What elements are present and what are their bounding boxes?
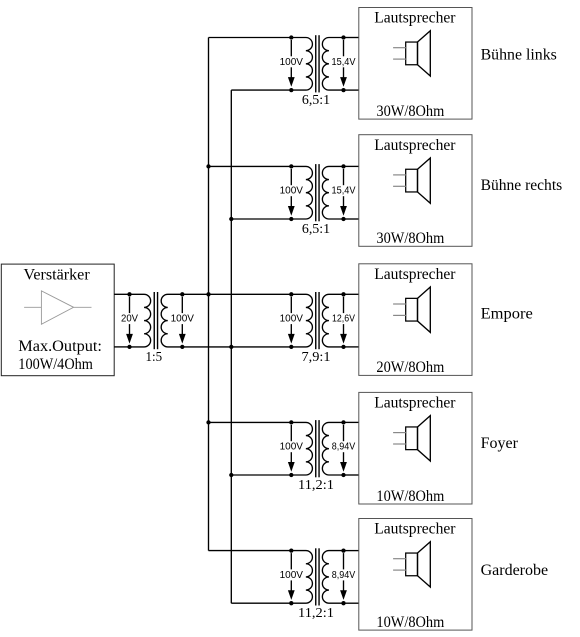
svg-text:Lautsprecher: Lautsprecher: [374, 137, 456, 154]
node TR2 primary bottom: [289, 88, 293, 92]
wire TR5 secondary top to speaker LS4: [344, 421, 359, 423]
junction 100V bus to TR5 top wire: [206, 420, 210, 424]
junction return bus to TR3 bottom wire: [229, 217, 233, 221]
value label 8,94V TR5 secondary: [331, 441, 357, 453]
wire TR5 secondary bottom to speaker LS4: [344, 474, 359, 476]
speaker LS1 box Bühne links: [359, 8, 472, 120]
value label 15,4V TR2 secondary: [331, 56, 357, 68]
node TR1 secondary bottom: [180, 345, 184, 349]
value label ratio 11,2:1: [298, 606, 334, 621]
wire TR2 secondary top to speaker LS1: [344, 37, 359, 39]
transformer TR2 core: [316, 35, 319, 92]
node TR3 secondary top: [341, 164, 345, 168]
node TR6 secondary top: [341, 548, 345, 552]
node TR4 secondary bottom: [341, 345, 345, 349]
voltage arrow TR1 primary: [126, 297, 133, 344]
voltage arrow TR3 primary: [288, 169, 295, 216]
svg-text:30W/8Ohm: 30W/8Ohm: [376, 103, 444, 120]
svg-text:12,6V: 12,6V: [332, 314, 355, 325]
wire 0V return bus vertical net: [230, 90, 232, 603]
svg-text:Lautsprecher: Lautsprecher: [374, 395, 456, 412]
svg-text:6,5:1: 6,5:1: [302, 93, 330, 108]
value label 100V TR5 primary: [279, 441, 304, 453]
label Empore: [481, 305, 533, 322]
speaker icon LS5: [393, 542, 430, 587]
svg-text:Max.Output:: Max.Output:: [18, 338, 102, 355]
label Garderobe: [481, 562, 548, 579]
node TR1 secondary top: [180, 292, 184, 296]
transformer TR5 secondary winding: [322, 422, 343, 475]
wire TR4 secondary bottom to speaker LS3: [344, 346, 359, 348]
junction 100V bus to TR3 top wire: [206, 164, 210, 168]
svg-text:100V: 100V: [280, 186, 304, 197]
svg-text:Foyer: Foyer: [481, 435, 519, 452]
svg-text:11,2:1: 11,2:1: [298, 478, 334, 493]
svg-text:100V: 100V: [171, 314, 195, 325]
svg-text:Bühne rechts: Bühne rechts: [481, 177, 563, 194]
transformer TR2 secondary winding: [322, 38, 343, 91]
node TR2 secondary top: [341, 35, 345, 39]
svg-text:15,4V: 15,4V: [332, 57, 356, 68]
voltage arrow TR3 secondary: [340, 169, 347, 216]
transformer TR4 core: [316, 292, 319, 349]
svg-text:100V: 100V: [280, 57, 304, 68]
svg-text:11,2:1: 11,2:1: [298, 606, 334, 621]
amplifier U1 Verstaerker box: [1, 264, 114, 376]
wire TR6 secondary bottom to speaker LS5: [344, 602, 359, 604]
value label ratio 6,5:1: [302, 222, 330, 237]
node TR4 primary bottom: [289, 345, 293, 349]
node TR1 primary bottom: [127, 345, 131, 349]
op-amp amplifier triangle symbol: [24, 291, 91, 324]
svg-text:Lautsprecher: Lautsprecher: [374, 521, 456, 538]
svg-text:10W/8Ohm: 10W/8Ohm: [376, 614, 444, 631]
node TR5 secondary top: [341, 420, 345, 424]
svg-text:Lautsprecher: Lautsprecher: [374, 266, 456, 283]
wire TR3 secondary bottom to speaker LS2: [344, 218, 359, 220]
node TR3 primary bottom: [289, 217, 293, 221]
node TR1 primary top: [127, 292, 131, 296]
value label 12,6V TR4 secondary: [331, 313, 356, 325]
speaker icon LS3: [393, 287, 430, 332]
svg-text:8,94V: 8,94V: [332, 442, 356, 453]
node TR5 primary bottom: [289, 473, 293, 477]
svg-text:100V: 100V: [280, 442, 304, 453]
node TR3 secondary bottom: [341, 217, 345, 221]
transformer TR3 6,5:1 primary winding: [291, 166, 312, 219]
wire TR2 secondary bottom to speaker LS1: [344, 89, 359, 91]
wire 100V bus to TR3 primary top: [209, 165, 292, 167]
value label ratio 11,2:1: [298, 478, 334, 493]
junction return bus to TR4 bottom wire: [229, 345, 233, 349]
value label 15,4V TR3 secondary: [331, 185, 357, 197]
node TR6 secondary bottom: [341, 601, 345, 605]
svg-text:10W/8Ohm: 10W/8Ohm: [376, 488, 444, 505]
wire return bus to TR5 primary bottom: [231, 474, 291, 476]
transformer TR6 core: [316, 548, 319, 605]
node TR3 primary top: [289, 164, 293, 168]
wire return bus to TR2 primary bottom: [231, 89, 291, 91]
label Bühne rechts: [481, 177, 563, 194]
svg-text:Empore: Empore: [481, 305, 533, 322]
speaker LS2 box Bühne rechts: [359, 135, 472, 247]
node TR5 primary top: [289, 420, 293, 424]
transformer TR3 core: [316, 164, 319, 221]
svg-text:20V: 20V: [121, 314, 138, 325]
wire TR3 secondary top to speaker LS2: [344, 165, 359, 167]
svg-text:15,4V: 15,4V: [332, 186, 356, 197]
svg-text:Garderobe: Garderobe: [481, 562, 548, 579]
transformer TR5 11,2:1 primary winding: [291, 422, 312, 475]
node TR2 secondary bottom: [341, 88, 345, 92]
value label 100V TR6 primary: [279, 569, 304, 581]
voltage arrow TR6 secondary: [340, 553, 347, 600]
node TR6 primary bottom: [289, 601, 293, 605]
node TR5 secondary bottom: [341, 473, 345, 477]
wire TR1 secondary bottom to return bus and TR4: [182, 346, 291, 348]
wire TR4 secondary top to speaker LS3: [344, 293, 359, 295]
speaker icon LS4: [393, 416, 430, 461]
value label 100V TR1 secondary: [170, 313, 195, 325]
value label 100V TR4 primary: [279, 313, 304, 325]
transformer TR3 secondary winding: [322, 166, 343, 219]
wire amp output - to TR1 primary bottom: [114, 346, 129, 348]
transformer TR6 11,2:1 primary winding: [291, 551, 312, 604]
svg-text:30W/8Ohm: 30W/8Ohm: [376, 230, 444, 247]
wire amp output + to TR1 primary top: [114, 293, 129, 295]
speaker LS4 box Foyer: [359, 392, 472, 504]
transformer TR1 secondary winding: [161, 294, 182, 347]
transformer TR5 core: [316, 420, 319, 477]
node TR4 primary top: [289, 292, 293, 296]
svg-text:100V: 100V: [280, 314, 304, 325]
speaker LS3 box Empore: [359, 264, 472, 376]
voltage arrow TR4 secondary: [340, 297, 347, 344]
junction 100V bus to TR4 top wire: [206, 292, 210, 296]
wire 100V bus vertical net: [208, 38, 210, 551]
label Bühne links: [481, 47, 557, 64]
voltage arrow TR2 primary: [288, 40, 295, 87]
speaker icon LS1: [393, 31, 430, 76]
transformer TR4 7,9:1 primary winding: [291, 294, 312, 347]
value label 100V TR3 primary: [279, 185, 304, 197]
svg-text:7,9:1: 7,9:1: [302, 350, 331, 365]
label Foyer: [481, 435, 519, 452]
voltage arrow TR6 primary: [288, 553, 295, 600]
transformer TR1 core: [154, 292, 157, 349]
value label ratio 6,5:1: [302, 93, 330, 108]
value label ratio 7,9:1: [302, 350, 331, 365]
svg-text:100W/4Ohm: 100W/4Ohm: [18, 356, 93, 373]
voltage arrow TR2 secondary: [340, 40, 347, 87]
transformer TR6 secondary winding: [322, 551, 343, 604]
wire 100V bus to TR6 primary top: [209, 550, 292, 552]
node TR2 primary top: [289, 35, 293, 39]
voltage arrow TR5 secondary: [340, 425, 347, 472]
svg-text:Lautsprecher: Lautsprecher: [374, 10, 456, 27]
wire return bus to TR6 primary bottom: [231, 602, 291, 604]
svg-text:20W/8Ohm: 20W/8Ohm: [376, 359, 444, 376]
wire 100V bus to TR5 primary top: [209, 421, 292, 423]
svg-text:100V: 100V: [280, 570, 304, 581]
svg-text:6,5:1: 6,5:1: [302, 222, 330, 237]
transformer TR1 1:5 primary winding: [130, 294, 151, 347]
speaker icon LS2: [393, 158, 430, 203]
value label 100V TR2 primary: [279, 56, 304, 68]
svg-text:Bühne links: Bühne links: [481, 47, 557, 64]
speaker LS5 box Garderobe: [359, 519, 472, 631]
wire return bus to TR3 primary bottom: [231, 218, 291, 220]
svg-text:Verstärker: Verstärker: [24, 267, 91, 284]
voltage arrow TR1 secondary: [179, 297, 186, 344]
svg-text:1:5: 1:5: [146, 350, 163, 365]
value label 20V: [120, 313, 139, 325]
value label 8,94V TR6 secondary: [331, 569, 357, 581]
voltage arrow TR5 primary: [288, 425, 295, 472]
node TR6 primary top: [289, 548, 293, 552]
wire 100V bus to TR2 primary top: [209, 37, 292, 39]
transformer TR2 6,5:1 primary winding: [291, 38, 312, 91]
wire TR1 secondary top to 100V bus and TR4: [182, 293, 291, 295]
node TR4 secondary top: [341, 292, 345, 296]
transformer TR4 secondary winding: [322, 294, 343, 347]
value label ratio 1:5: [146, 350, 163, 365]
svg-text:8,94V: 8,94V: [332, 570, 356, 581]
voltage arrow TR4 primary: [288, 297, 295, 344]
junction return bus to TR5 bottom wire: [229, 473, 233, 477]
wire TR6 secondary top to speaker LS5: [344, 550, 359, 552]
